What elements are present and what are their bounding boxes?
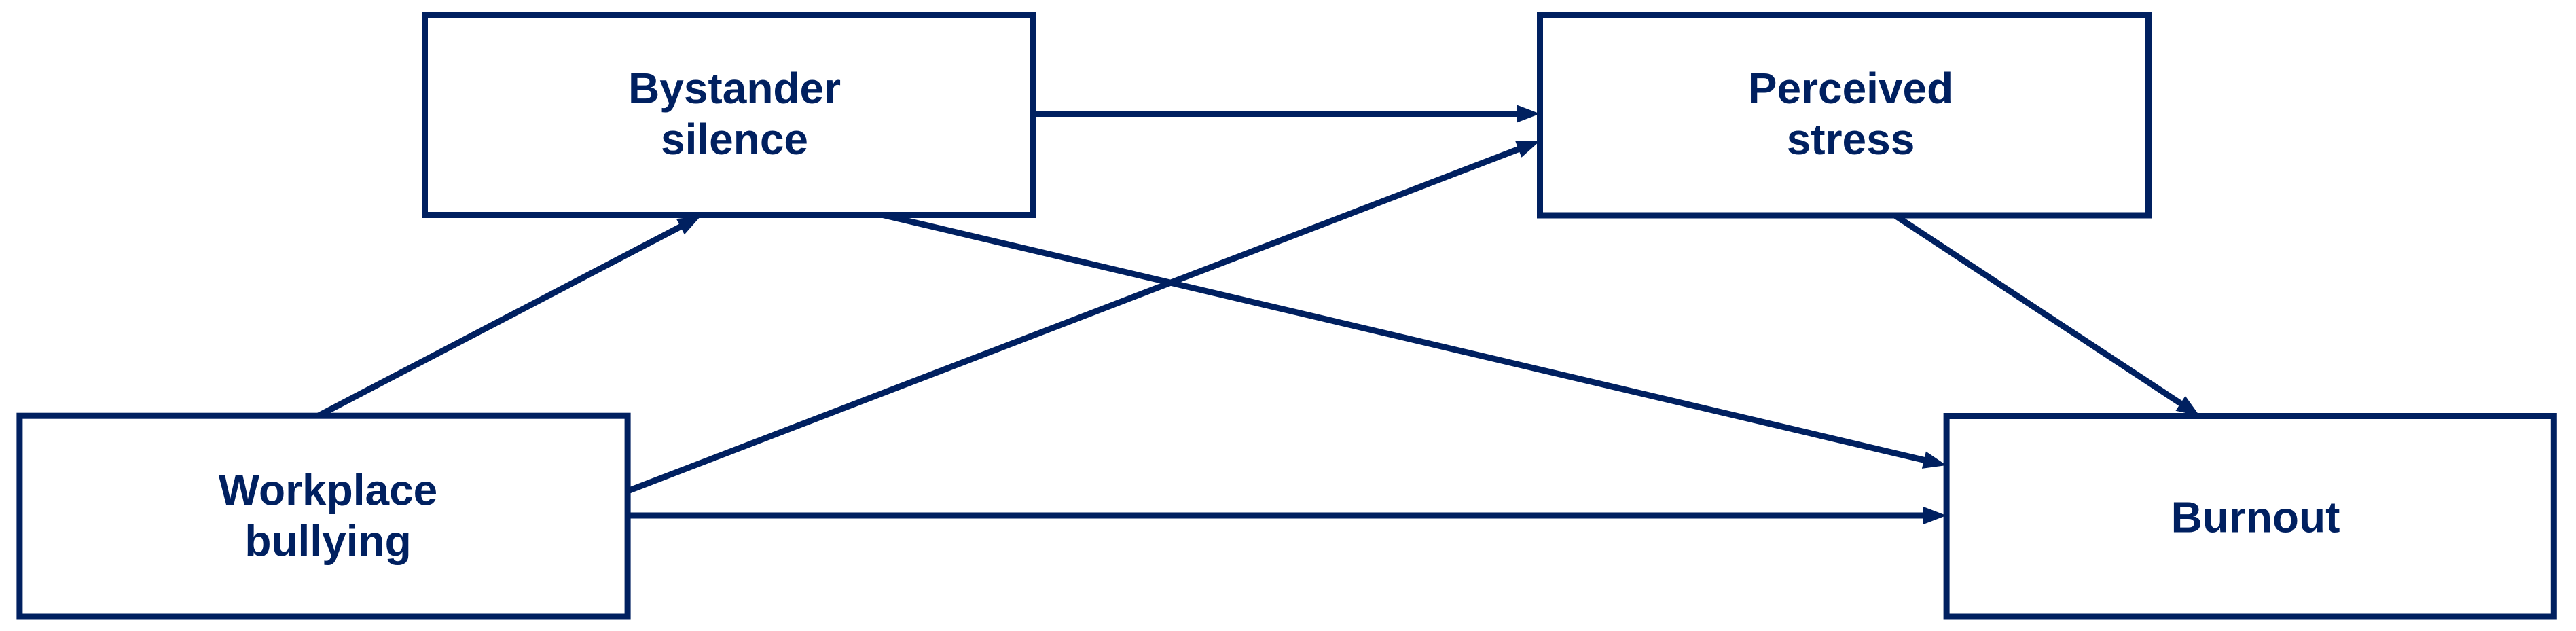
svg-text:silence: silence: [661, 115, 808, 164]
wire: Workplace bullying -> Burnout: [628, 507, 1946, 524]
label: Perceived stress: [1748, 64, 1953, 164]
box: Bystander silence: [425, 15, 1034, 215]
wire: Workplace bullying -> Perceived stress: [628, 141, 1540, 492]
wire: Workplace bullying -> Bystander silence: [319, 216, 701, 416]
svg-text:bullying: bullying: [244, 517, 411, 566]
svg-text:Burnout: Burnout: [2171, 493, 2340, 542]
svg-text:Perceived: Perceived: [1748, 64, 1953, 113]
wire: Perceived stress -> Burnout: [1895, 215, 2200, 416]
svg-text:stress: stress: [1787, 115, 1915, 164]
label: Burnout: [2171, 493, 2340, 542]
box: Perceived stress: [1540, 15, 2149, 216]
svg-text:Bystander: Bystander: [628, 64, 841, 113]
wire: Bystander silence -> Perceived stress: [1034, 105, 1540, 123]
box: Burnout: [1946, 416, 2554, 617]
wire: Bystander silence -> Burnout: [883, 215, 1946, 469]
box: Workplace bullying: [20, 416, 628, 617]
svg-text:Workplace: Workplace: [219, 466, 438, 515]
label: Workplace bullying: [219, 466, 438, 566]
label: Bystander silence: [628, 64, 841, 164]
